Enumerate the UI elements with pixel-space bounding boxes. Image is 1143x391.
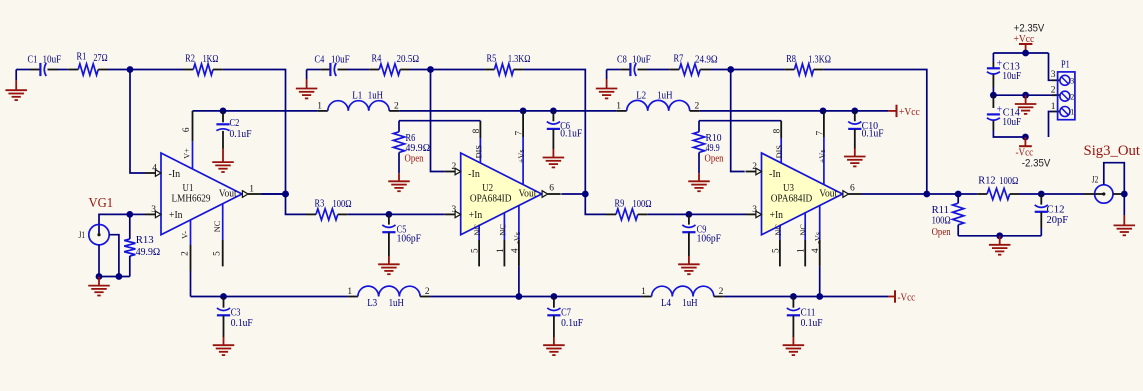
wire pin4 node to -Vcc terminal xyxy=(820,296,895,298)
node ground junction xyxy=(96,273,103,280)
svg-text:49.9Ω: 49.9Ω xyxy=(136,246,161,258)
svg-text:100Ω: 100Ω xyxy=(633,198,652,210)
ground below R6 xyxy=(388,181,410,191)
svg-text:3: 3 xyxy=(1051,70,1056,80)
svg-text:27Ω: 27Ω xyxy=(94,52,108,64)
svg-text:3: 3 xyxy=(1070,77,1074,86)
svg-text:V+: V+ xyxy=(183,148,192,159)
wire R3 to C5 node xyxy=(348,213,389,215)
wire L4 to C11 node xyxy=(724,296,794,298)
svg-text:+Vs: +Vs xyxy=(517,149,526,163)
svg-text:1: 1 xyxy=(496,248,506,253)
svg-text:R4: R4 xyxy=(372,53,382,65)
svg-text:100Ω: 100Ω xyxy=(932,215,951,227)
ground below C11 xyxy=(783,345,805,355)
U1 pin 6 (V+) lead xyxy=(182,111,192,169)
wire U2 pin4 to -Vcc rail xyxy=(518,266,520,296)
wire +In node to U1 pin3 xyxy=(130,213,145,215)
op-amp U3 OPA684ID xyxy=(762,153,843,235)
capacitor C14 10uF (polarized) xyxy=(987,95,1021,130)
svg-text:-In: -In xyxy=(169,169,181,180)
node mid-ground junction xyxy=(1022,92,1029,99)
wire U3 pin4 to -Vcc rail xyxy=(819,266,821,296)
svg-text:8: 8 xyxy=(773,128,783,133)
svg-text:P1: P1 xyxy=(1061,59,1070,71)
svg-text:2: 2 xyxy=(180,251,190,256)
wire -V rail left segment xyxy=(191,296,224,298)
svg-text:1: 1 xyxy=(797,248,807,253)
svg-text:2: 2 xyxy=(394,101,399,111)
resistor R5 1.3K&#937; xyxy=(485,53,531,76)
resistor R4 20.5&#937; xyxy=(369,53,419,76)
resistor R8 1.3K&#937; xyxy=(785,53,831,75)
node R11 junction xyxy=(955,191,962,198)
wire C6 node to L2 xyxy=(553,110,616,112)
wire R11 bottom to C12 bottom xyxy=(958,235,1041,237)
wire L2 to U3 pin7 node xyxy=(700,110,823,112)
svg-text:Vout: Vout xyxy=(219,188,237,199)
P1 screw terminal 2 xyxy=(1060,91,1074,101)
U3 pin 8 (DIS) lead xyxy=(773,121,784,163)
wire R10 stub to DIS pin xyxy=(699,120,781,122)
node C5 junction xyxy=(386,211,393,218)
node C10 junction xyxy=(851,108,858,115)
svg-text:1: 1 xyxy=(641,287,646,297)
ground below C2 xyxy=(212,162,234,172)
wire node IN1 to R2 xyxy=(130,69,184,71)
svg-text:20pF: 20pF xyxy=(1047,214,1069,226)
U1 pin 1 (Vout) lead xyxy=(242,185,262,198)
svg-text:J1: J1 xyxy=(79,231,86,241)
svg-text:-2.35V: -2.35V xyxy=(1022,158,1051,170)
inductor L4 1uH xyxy=(641,286,724,309)
svg-text:2: 2 xyxy=(425,287,430,297)
node +In1 junction xyxy=(126,211,133,218)
resistor R12 100&#937; xyxy=(977,174,1019,199)
svg-text:1uH: 1uH xyxy=(682,297,697,309)
svg-text:0.1uF: 0.1uF xyxy=(231,317,253,329)
wire J2 right stub xyxy=(1113,193,1124,195)
svg-text:7: 7 xyxy=(815,131,825,136)
capacitor C5 106pF xyxy=(382,214,421,264)
node +Vcc junction xyxy=(1022,50,1029,57)
wire C4 to R4 xyxy=(348,69,370,71)
wire left branch down to C13 xyxy=(992,53,994,68)
node IN1 junction xyxy=(127,66,134,73)
svg-text:106pF: 106pF xyxy=(697,233,721,245)
wire C3 node to L3 xyxy=(224,296,348,298)
wire R3 input from output node xyxy=(286,194,307,214)
svg-text:2: 2 xyxy=(1051,86,1056,96)
svg-text:R5: R5 xyxy=(487,53,497,65)
svg-text:20.5Ω: 20.5Ω xyxy=(397,53,420,65)
wire L1 to U2 pin7 node xyxy=(399,110,523,112)
svg-text:Open: Open xyxy=(705,152,724,164)
svg-text:DIS: DIS xyxy=(474,145,483,159)
capacitor C7 0.1uF xyxy=(547,297,583,346)
svg-text:10uF: 10uF xyxy=(43,53,62,65)
-Vcc supply terminal xyxy=(1016,137,1034,158)
svg-text:4: 4 xyxy=(510,248,520,253)
svg-text:4: 4 xyxy=(811,248,821,253)
U2 pin 7 (+Vs) lead xyxy=(515,111,526,185)
capacitor C8 10uF xyxy=(617,54,651,77)
wire U1 output to node O1 xyxy=(262,193,286,195)
svg-text:R13: R13 xyxy=(136,234,154,246)
node -Vcc junction xyxy=(1022,134,1029,141)
wire C4 left xyxy=(307,69,331,71)
node U3 pin7 junction xyxy=(820,108,827,115)
svg-text:+: + xyxy=(997,58,1003,69)
svg-text:OPA684ID: OPA684ID xyxy=(470,193,512,205)
ground below C3 xyxy=(213,345,235,355)
capacitor C9 106pF xyxy=(682,214,721,264)
wire node A3 to R8 xyxy=(731,69,785,71)
svg-text:C1: C1 xyxy=(28,53,38,65)
node C6 junction xyxy=(550,108,557,115)
ground below C10 xyxy=(844,157,866,167)
wire pin7 node to C6 node xyxy=(523,110,553,112)
wire U output to node at x=585.3 xyxy=(561,193,585,195)
wire R6 stub to DIS pin xyxy=(399,120,480,122)
U2 pin 1 (NC) lead xyxy=(496,213,507,267)
+Vcc power terminal xyxy=(897,105,920,118)
node A2 junction xyxy=(427,66,434,73)
wire R9 to C9 node xyxy=(648,213,689,215)
wire J1 top to +In node xyxy=(99,214,130,234)
svg-text:Open: Open xyxy=(405,152,424,164)
svg-text:V-: V- xyxy=(181,231,190,239)
inductor L1 1uH xyxy=(317,90,399,112)
svg-text:7: 7 xyxy=(515,131,525,136)
svg-text:+In: +In xyxy=(169,210,183,221)
op-amp U1 LMH6629 xyxy=(161,153,242,235)
svg-text:3: 3 xyxy=(451,205,456,215)
wire U1 pin6 to C2 node xyxy=(193,110,224,112)
svg-text:2: 2 xyxy=(1070,92,1074,101)
node J2 ground junction xyxy=(1121,191,1128,198)
wire R4 to node A2 xyxy=(410,69,431,71)
+Vcc supply terminal xyxy=(1014,33,1035,53)
ground at C1 input xyxy=(5,70,27,101)
wire C2 node to L1 xyxy=(223,110,318,112)
wire U3 output node to R11 node xyxy=(927,193,958,195)
resistor R10 49.9 (Open) xyxy=(693,121,724,182)
svg-text:0.1uF: 0.1uF xyxy=(560,128,582,140)
svg-text:0.1uF: 0.1uF xyxy=(561,317,583,329)
svg-text:2: 2 xyxy=(719,287,724,297)
capacitor C12 20pF xyxy=(1035,194,1068,236)
svg-text:R7: R7 xyxy=(674,53,684,65)
ground below C7 xyxy=(543,345,565,355)
svg-text:10uF: 10uF xyxy=(331,54,350,66)
resistor R13 49.9&#937; xyxy=(124,214,160,276)
svg-text:-In: -In xyxy=(769,169,781,180)
-2.35V label xyxy=(1022,158,1051,170)
svg-text:1: 1 xyxy=(347,287,352,297)
resistor R7 24.9&#937; xyxy=(669,53,717,75)
wire C5 node to U pin3 xyxy=(389,213,445,215)
wire U3 output to feedback node xyxy=(862,193,927,195)
U2 pin 2 (-In) lead xyxy=(445,162,461,175)
svg-text:1uH: 1uH xyxy=(389,297,404,309)
svg-text:1: 1 xyxy=(249,185,254,195)
svg-text:NC: NC xyxy=(213,220,222,232)
svg-text:Open: Open xyxy=(932,226,951,238)
svg-text:NC: NC xyxy=(799,224,808,236)
svg-text:L3: L3 xyxy=(367,297,377,309)
svg-text:+Vcc: +Vcc xyxy=(899,106,920,118)
capacitor C13 10uF (polarized) xyxy=(987,58,1021,87)
U2 pin 8 (DIS) lead xyxy=(472,121,483,163)
node C3 junction xyxy=(220,293,227,300)
node mid-left junction xyxy=(990,92,997,99)
node U2 pin7 junction xyxy=(520,108,527,115)
svg-text:R8: R8 xyxy=(786,53,796,65)
svg-text:VG1: VG1 xyxy=(89,195,114,210)
svg-text:+: + xyxy=(997,105,1003,116)
ground at C4 xyxy=(296,70,318,99)
capacitor C2 0.1uF xyxy=(216,111,251,162)
svg-text:L2: L2 xyxy=(636,89,646,101)
svg-text:+In: +In xyxy=(469,210,483,221)
wire node A2 down to U2 -In xyxy=(431,70,445,172)
U3 pin 5 (NC) lead xyxy=(771,224,782,267)
ground at supply midpoint xyxy=(1015,95,1037,114)
wire R13 bottom to ground node xyxy=(99,276,130,278)
U3 pin 3 (+In) lead xyxy=(746,205,762,218)
node U3 pin4 junction xyxy=(816,293,823,300)
Sig3_Out label xyxy=(1084,143,1141,159)
svg-text:Vout: Vout xyxy=(519,188,537,199)
U3 pin 2 (-In) lead xyxy=(746,162,762,175)
capacitor C3 0.1uF xyxy=(217,297,253,346)
svg-text:-Vs: -Vs xyxy=(513,232,522,244)
node J1 return junction xyxy=(116,273,123,280)
wire U output to node at x=285.5 xyxy=(262,193,286,195)
wire C13 to mid rail xyxy=(992,87,994,95)
capacitor C1 10uF xyxy=(28,53,62,76)
resistor R1 27&#937; xyxy=(68,51,108,76)
op-amp U2 OPA684ID xyxy=(461,153,542,235)
wire R8 to U3 output node (feedback) xyxy=(823,70,926,195)
ground below R10 xyxy=(688,181,710,191)
svg-text:6: 6 xyxy=(182,127,192,132)
ground below J1 xyxy=(88,277,110,296)
svg-text:1: 1 xyxy=(1051,102,1056,112)
svg-text:3: 3 xyxy=(752,205,757,215)
node output-ground junction xyxy=(996,232,1003,239)
svg-text:NC: NC xyxy=(774,224,783,236)
U3 pin 7 (+Vs) lead xyxy=(815,111,826,185)
connector P1 xyxy=(1058,59,1075,120)
VG1 label xyxy=(89,195,114,210)
svg-text:24.9Ω: 24.9Ω xyxy=(695,53,718,65)
wire J1 bottom to ground node xyxy=(98,245,100,277)
U2 pin 4 (-Vs) lead xyxy=(510,205,521,266)
capacitor C11 0.1uF xyxy=(787,297,823,346)
node output junction at x=285.5 xyxy=(282,191,289,198)
node C11 junction xyxy=(790,293,797,300)
wire U1 pin2 to -Vcc rail xyxy=(190,271,192,297)
wire node IN1 down to U1 -In xyxy=(130,70,145,174)
inductor L3 1uH xyxy=(347,286,430,309)
ground below output network xyxy=(989,236,1011,255)
wire pin7 node to C10 node xyxy=(823,110,855,112)
wire L3 to U2 pin4 node xyxy=(430,296,519,298)
node output junction at x=585.3 xyxy=(582,191,589,198)
wire J2 shield loop xyxy=(1104,163,1125,194)
svg-text:1: 1 xyxy=(317,101,322,111)
U1 pin 5 (NC) lead xyxy=(213,204,223,267)
svg-text:1KΩ: 1KΩ xyxy=(203,53,219,65)
node C12 junction xyxy=(1038,191,1045,198)
svg-text:106pF: 106pF xyxy=(397,233,421,245)
svg-text:1.3KΩ: 1.3KΩ xyxy=(508,53,531,65)
svg-text:1.3KΩ: 1.3KΩ xyxy=(808,54,831,66)
svg-text:8: 8 xyxy=(472,128,482,133)
svg-text:R2: R2 xyxy=(185,53,195,65)
source J1 connector xyxy=(79,225,110,245)
wire node A3 down to U3 -In xyxy=(731,70,745,172)
svg-text:100Ω: 100Ω xyxy=(999,175,1018,187)
svg-text:LMH6629: LMH6629 xyxy=(172,193,211,205)
svg-text:1: 1 xyxy=(1070,108,1074,117)
connector J2 xyxy=(1092,176,1113,204)
U2 pin 5 (NC) lead xyxy=(471,224,482,267)
svg-text:5: 5 xyxy=(771,248,781,253)
wire R9 input from output node xyxy=(585,194,606,214)
wire pin4 node to C7 node xyxy=(519,296,554,298)
wire R11 node to R12 xyxy=(958,193,977,195)
wire pin3 branch xyxy=(1049,53,1060,80)
ground below J2 xyxy=(1114,194,1136,235)
svg-text:C4: C4 xyxy=(315,54,325,66)
P1 screw terminal 1 xyxy=(1060,107,1074,117)
wire C10 node to +Vcc terminal xyxy=(855,110,897,112)
svg-text:-Vs: -Vs xyxy=(814,232,823,244)
svg-text:-Vcc: -Vcc xyxy=(898,292,916,304)
node U3 output junction xyxy=(923,191,930,198)
wire pin2 stub xyxy=(1051,86,1060,96)
resistor R2 1K&#937; xyxy=(184,53,223,76)
svg-text:3: 3 xyxy=(151,205,156,215)
svg-text:-Vcc: -Vcc xyxy=(1016,146,1034,158)
svg-text:Vout: Vout xyxy=(819,188,837,199)
wire R1 to node IN1 xyxy=(108,69,130,71)
U3 pin 4 (-Vs) lead xyxy=(811,205,822,266)
resistor R3 100&#937; xyxy=(306,198,352,220)
+2.35V label xyxy=(1014,23,1045,35)
wire C11 node to U3 pin4 node xyxy=(793,296,819,298)
resistor R6 49.9&#937; (Open) xyxy=(393,121,430,182)
U2 pin 3 (+In) lead xyxy=(445,205,461,218)
svg-text:10uF: 10uF xyxy=(632,54,651,66)
svg-text:NC: NC xyxy=(498,224,507,236)
U1 pin 3 (+In) lead xyxy=(145,205,161,218)
wire J1 right terminal down xyxy=(109,235,119,277)
svg-text:2: 2 xyxy=(752,162,757,172)
capacitor C10 0.1uF xyxy=(848,111,883,157)
wire C7 node to L4 xyxy=(554,296,642,298)
capacitor C4 10uF xyxy=(315,54,350,77)
svg-text:4: 4 xyxy=(152,163,157,173)
ground below C6 xyxy=(543,158,565,168)
svg-text:J2: J2 xyxy=(1092,176,1099,186)
wire C9 node to U pin3 xyxy=(689,213,746,215)
P1 screw terminal 3 xyxy=(1060,75,1074,85)
wire pin1 branch xyxy=(1049,102,1060,137)
node C7 junction xyxy=(551,293,558,300)
svg-text:R3: R3 xyxy=(315,198,325,210)
wire C14 to bottom rail xyxy=(993,130,1025,137)
svg-text:C8: C8 xyxy=(617,54,627,66)
-Vcc power terminal xyxy=(895,290,915,303)
wire C8 to R7 xyxy=(648,69,670,71)
svg-text:6: 6 xyxy=(850,184,855,194)
svg-text:Sig3_Out: Sig3_Out xyxy=(1084,143,1141,159)
wire C1 to R1 xyxy=(58,69,69,71)
capacitor C6 0.1uF xyxy=(547,111,582,158)
svg-text:-In: -In xyxy=(468,169,480,180)
U1 pin 4 (-In) lead xyxy=(145,163,161,176)
wire mid rail xyxy=(993,94,1060,96)
svg-text:L1: L1 xyxy=(352,90,362,102)
node C9 junction xyxy=(686,211,693,218)
wire R12 to C12 node xyxy=(1020,193,1042,195)
wire C8 left xyxy=(607,69,631,71)
svg-text:0.1uF: 0.1uF xyxy=(230,128,252,140)
svg-text:L4: L4 xyxy=(661,297,671,309)
ground below C9 xyxy=(678,264,700,274)
resistor R11 100&#937; (Open) xyxy=(932,194,964,238)
svg-text:2: 2 xyxy=(695,101,700,111)
svg-text:0.1uF: 0.1uF xyxy=(801,317,823,329)
svg-text:1: 1 xyxy=(616,101,621,111)
U3 pin 1 (NC) lead xyxy=(797,213,808,267)
svg-text:1uH: 1uH xyxy=(657,89,672,101)
svg-text:NC: NC xyxy=(473,224,482,236)
ground below C5 xyxy=(378,264,400,274)
U3 pin 6 (Vout) lead xyxy=(843,184,862,198)
svg-text:10uF: 10uF xyxy=(1002,116,1021,128)
svg-text:+In: +In xyxy=(770,210,784,221)
node A3 junction xyxy=(727,66,734,73)
inductor L2 1uH xyxy=(616,89,700,111)
U2 pin 6 (Vout) lead xyxy=(542,184,561,198)
svg-text:6: 6 xyxy=(549,184,554,194)
svg-text:2: 2 xyxy=(451,162,456,172)
wire R5 to U2 output node (feedback) xyxy=(523,70,585,195)
node C2 junction xyxy=(220,108,227,115)
U1 pin 2 (V-) lead xyxy=(180,220,190,271)
node U2 pin4 junction xyxy=(516,293,523,300)
wire C1 left xyxy=(16,69,40,71)
svg-text:+Vs: +Vs xyxy=(818,149,827,163)
ground at C8 xyxy=(596,70,618,99)
wire node A2 to R5 xyxy=(431,69,485,71)
node O1 junction (U1 output) xyxy=(282,191,289,198)
svg-text:10uF: 10uF xyxy=(1002,70,1021,82)
svg-text:R1: R1 xyxy=(77,51,87,63)
svg-text:100Ω: 100Ω xyxy=(333,198,352,210)
svg-text:1uH: 1uH xyxy=(368,90,383,102)
resistor R9 100&#937; xyxy=(606,198,652,220)
svg-text:0.1uF: 0.1uF xyxy=(862,128,884,140)
wire C12 node to J2 xyxy=(1041,193,1094,195)
wire R2 to U1 output node (feedback) xyxy=(223,70,286,195)
svg-text:DIS: DIS xyxy=(775,145,784,159)
